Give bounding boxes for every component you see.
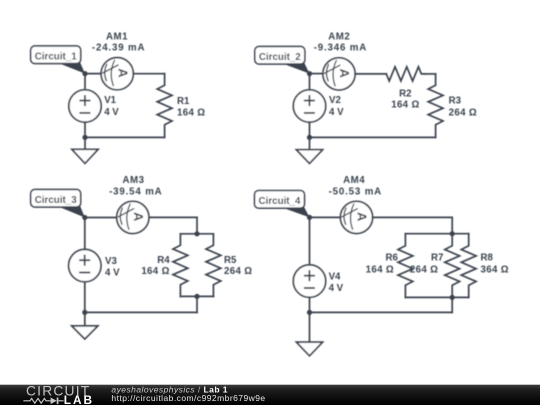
svg-text:R1: R1: [177, 96, 190, 107]
svg-text:R6: R6: [386, 253, 399, 264]
node parallel top junction: [194, 231, 199, 236]
svg-text:AM3: AM3: [122, 175, 144, 186]
svg-text:R7: R7: [431, 253, 443, 264]
wire bottom rail circuit 3: [85, 311, 197, 313]
svg-text:http://circuitlab.com/c992mbr6: http://circuitlab.com/c992mbr679w9e: [111, 393, 265, 403]
svg-text:AM4: AM4: [343, 175, 365, 186]
wire node1 to V1: [84, 74, 86, 90]
voltage source V1: [69, 90, 101, 122]
net flag Circuit_3 tail: [57, 206, 85, 218]
svg-text:A: A: [337, 68, 352, 78]
footer bar: [0, 385, 540, 405]
wire down from parallel pair: [196, 296, 198, 312]
svg-text:R4: R4: [157, 255, 170, 266]
svg-text:Circuit_1: Circuit_1: [35, 51, 77, 62]
svg-text:4 V: 4 V: [329, 283, 344, 294]
logo circuit glyph wire+resistor: [23, 398, 50, 403]
wire R2 to corner: [425, 73, 435, 75]
svg-text:264 Ω: 264 Ω: [449, 107, 477, 118]
wire bottom rail circuit 1: [85, 136, 165, 138]
wire parallel top bar: [180, 233, 213, 235]
wire down to parallel top bar: [196, 217, 198, 233]
svg-text:AM1: AM1: [106, 31, 128, 42]
net flag Circuit_2: [255, 46, 305, 64]
svg-text:Circuit_4: Circuit_4: [259, 196, 301, 207]
svg-text:V3: V3: [105, 256, 117, 267]
wire node2 to V2: [309, 74, 311, 90]
net flag Circuit_4 tail: [281, 207, 310, 218]
resistor R6: [398, 234, 413, 298]
wire V1 to ground node: [84, 122, 86, 137]
svg-text:164 Ω: 164 Ω: [391, 100, 419, 111]
net flag Circuit_3: [31, 189, 81, 207]
wire V3 to ground node: [84, 282, 86, 313]
ammeter AM1: [101, 58, 133, 90]
voltage source V4: [293, 265, 325, 297]
svg-text:Circuit_3: Circuit_3: [35, 195, 77, 206]
node circuit 4 bottom junction: [307, 310, 312, 315]
wire to ground 4: [309, 312, 311, 342]
svg-text:R3: R3: [449, 96, 462, 107]
svg-text:-9.346 mA: -9.346 mA: [314, 42, 367, 53]
wire node3 to AM3: [85, 217, 117, 219]
node circuit 3 bottom junction: [82, 310, 87, 315]
net flag Circuit_2 tail: [281, 63, 309, 74]
resistor R8: [461, 234, 476, 298]
svg-text:LAB: LAB: [64, 393, 94, 405]
wire node2 to AM2: [310, 73, 324, 75]
node parallel bottom junction: [194, 294, 199, 299]
svg-text:A: A: [115, 68, 130, 78]
svg-text:V2: V2: [329, 95, 341, 106]
node circuit 4 top junction: [307, 215, 312, 220]
wire node3 to V3: [84, 218, 86, 250]
wire node4 to V4: [309, 217, 311, 265]
ammeter AM4: [340, 201, 372, 233]
wire V2 to ground node: [309, 122, 311, 137]
svg-text:4 V: 4 V: [105, 268, 120, 279]
svg-text:264 Ω: 264 Ω: [410, 264, 438, 275]
net flag Circuit_1 tail: [57, 62, 85, 74]
ground: [72, 326, 98, 339]
voltage source V2: [293, 90, 325, 122]
svg-text:R5: R5: [224, 255, 237, 266]
svg-text:A: A: [131, 212, 146, 222]
resistor R4: [173, 234, 188, 297]
node circuit 2 bottom junction: [307, 135, 312, 140]
ground: [72, 149, 98, 163]
svg-text:4 V: 4 V: [104, 107, 119, 118]
svg-text:V1: V1: [104, 95, 116, 106]
node circuit 2 top junction: [307, 71, 312, 76]
node circuit 1 top junction: [82, 71, 87, 76]
svg-text:R8: R8: [481, 253, 494, 264]
resistor R1: [157, 74, 172, 138]
svg-text:A: A: [355, 212, 370, 222]
svg-text:364 Ω: 364 Ω: [481, 264, 509, 275]
wire to ground 3: [84, 312, 86, 326]
wire trio bottom bar: [405, 296, 468, 298]
node trio bottom junction: [450, 295, 455, 300]
svg-text:R2: R2: [399, 88, 411, 99]
svg-text:V4: V4: [329, 272, 341, 283]
wire AM4 to parallel trio: [373, 216, 453, 218]
svg-text:Circuit_2: Circuit_2: [259, 52, 301, 63]
wire V4 to ground node: [309, 297, 311, 312]
wire node1 to AM1: [85, 73, 101, 75]
svg-text:164 Ω: 164 Ω: [366, 264, 394, 275]
logo diode glyph: [51, 398, 57, 405]
node trio top junction: [450, 231, 455, 236]
resistor R5: [206, 234, 221, 297]
ammeter AM3: [117, 201, 149, 233]
resistor R3: [428, 74, 443, 137]
net flag Circuit_4: [255, 191, 305, 209]
wire AM2 to R2: [355, 73, 386, 75]
wire down from trio: [451, 297, 453, 312]
wire down to trio top bar: [451, 217, 453, 233]
svg-text:-39.54 mA: -39.54 mA: [109, 186, 162, 197]
ground: [296, 150, 322, 164]
node circuit 1 bottom junction: [82, 135, 87, 140]
wire parallel bottom bar: [180, 295, 213, 297]
svg-text:4 V: 4 V: [329, 107, 344, 118]
wire bottom rail circuit 2: [310, 136, 436, 138]
wire bottom rail circuit 4: [310, 311, 453, 313]
ground: [296, 342, 322, 356]
wire trio top bar: [405, 233, 468, 235]
wire AM1 to R1: [133, 73, 164, 75]
svg-text:164 Ω: 164 Ω: [177, 108, 205, 119]
ammeter AM2: [323, 58, 355, 90]
svg-text:264 Ω: 264 Ω: [224, 266, 252, 277]
resistor R7: [445, 234, 460, 298]
svg-text:164 Ω: 164 Ω: [141, 266, 169, 277]
wire to ground 1: [84, 137, 86, 149]
svg-text:AM2: AM2: [328, 31, 350, 42]
net flag Circuit_1: [31, 46, 81, 64]
svg-text:-50.53 mA: -50.53 mA: [329, 186, 382, 197]
wire AM3 to parallel pair: [149, 216, 197, 218]
svg-text:-24.39 mA: -24.39 mA: [92, 42, 145, 53]
wire to ground 2: [309, 137, 311, 149]
wire node4 to AM4: [310, 216, 341, 218]
resistor R2: [386, 67, 425, 81]
node circuit 3 top junction: [82, 215, 87, 220]
voltage source V3: [69, 249, 101, 281]
